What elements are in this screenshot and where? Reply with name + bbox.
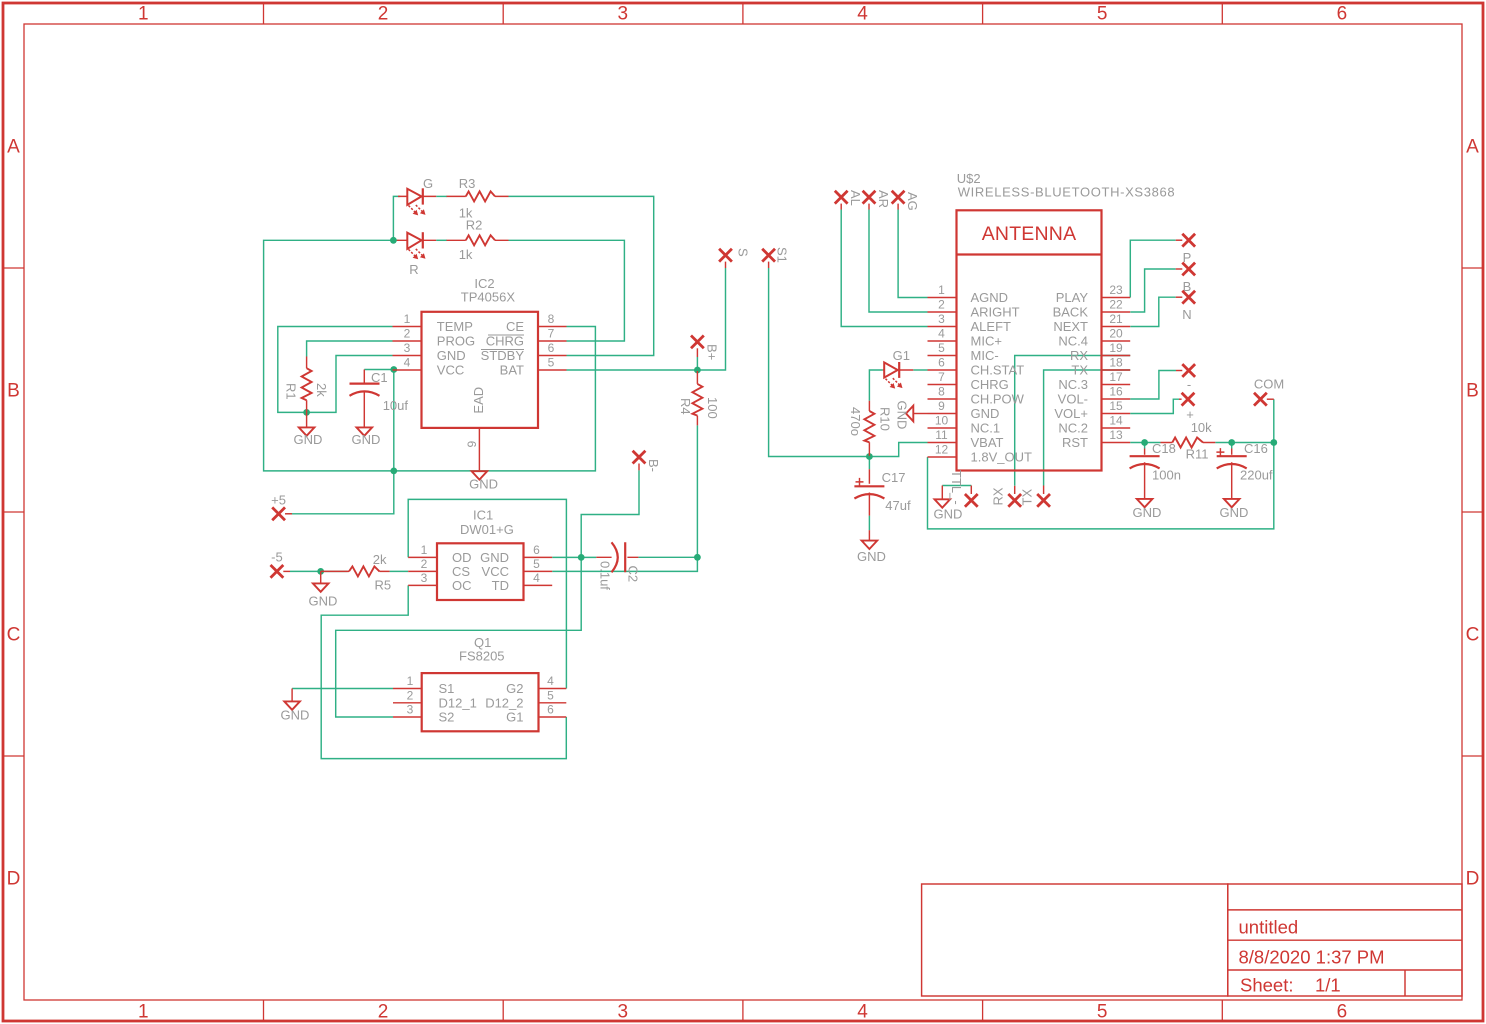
wire IC1 OC pin3 to Q1 G1 pin6 <box>321 585 566 758</box>
svg-text:7: 7 <box>548 327 555 341</box>
svg-text:TD: TD <box>492 578 509 593</box>
LED G <box>398 176 436 215</box>
svg-text:MIC+: MIC+ <box>971 334 1002 349</box>
svg-text:4: 4 <box>938 327 945 341</box>
ground at R5 / -5 <box>309 571 338 608</box>
module U$2 WIRELESS-BLUETOOTH-XS3868 <box>928 171 1176 471</box>
svg-text:19: 19 <box>1109 341 1123 355</box>
svg-text:4: 4 <box>533 571 540 585</box>
svg-text:8/8/2020 1:37 PM: 8/8/2020 1:37 PM <box>1239 947 1385 968</box>
svg-text:5: 5 <box>1097 4 1108 25</box>
svg-text:VCC: VCC <box>482 564 509 579</box>
svg-text:R4: R4 <box>678 398 693 415</box>
svg-text:C2: C2 <box>626 566 641 583</box>
svg-text:GND: GND <box>309 594 338 609</box>
capacitor C2 0.1uf <box>596 542 640 590</box>
wire IC2 PROG pin2 to R1 top <box>307 341 393 357</box>
LED R <box>397 232 437 277</box>
svg-text:8: 8 <box>548 312 555 326</box>
svg-text:R11: R11 <box>1186 447 1209 462</box>
wire R2 to IC2 CHRG pin7 <box>509 240 625 341</box>
svg-text:14: 14 <box>1109 414 1123 428</box>
wire U$2 BACK pin22 to B flag <box>1130 269 1175 312</box>
ground TTL net <box>934 486 963 522</box>
svg-text:N: N <box>1182 307 1191 322</box>
flag P <box>1176 234 1195 265</box>
flag + (VOL+) <box>1179 393 1194 422</box>
svg-text:S1: S1 <box>775 247 790 263</box>
ground C17 <box>857 530 886 564</box>
wire R3 to IC2 STDBY pin6 <box>509 196 654 355</box>
capacitor C16 220uf <box>1216 441 1273 498</box>
svg-text:D12_1: D12_1 <box>439 695 477 710</box>
svg-text:4: 4 <box>547 674 554 688</box>
svg-text:3: 3 <box>618 4 629 25</box>
svg-text:220uf: 220uf <box>1240 468 1273 483</box>
wire G1 LED cathode to U$2 CH.STAT pin6 <box>913 369 927 371</box>
svg-text:ANTENNA: ANTENNA <box>982 223 1077 245</box>
svg-text:-: - <box>1187 377 1191 392</box>
power flag -5 <box>271 550 291 578</box>
svg-text:1k: 1k <box>459 247 473 262</box>
svg-text:CS: CS <box>452 564 470 579</box>
svg-text:ARIGHT: ARIGHT <box>971 305 1020 320</box>
svg-text:NC.1: NC.1 <box>971 421 1001 436</box>
svg-text:6: 6 <box>547 703 554 717</box>
wire U$2 PLAY pin23 to P flag <box>1130 240 1175 297</box>
power flag B+ <box>691 336 720 361</box>
svg-text:COM: COM <box>1254 377 1284 392</box>
svg-text:3: 3 <box>407 703 414 717</box>
svg-text:ALEFT: ALEFT <box>971 319 1012 334</box>
svg-text:CHRG: CHRG <box>486 334 524 349</box>
svg-text:5: 5 <box>533 557 540 571</box>
svg-text:R10: R10 <box>878 407 893 431</box>
wire U$2 1.8V_OUT pin12 to COM rail <box>928 443 1274 529</box>
svg-text:0.1uf: 0.1uf <box>598 561 613 590</box>
svg-text:PLAY: PLAY <box>1056 290 1089 305</box>
resistor R4 100 <box>678 371 720 425</box>
svg-text:1: 1 <box>421 543 428 557</box>
svg-text:VOL+: VOL+ <box>1054 406 1088 421</box>
svg-text:21: 21 <box>1109 312 1123 326</box>
svg-text:GND: GND <box>934 506 963 521</box>
svg-text:7: 7 <box>938 370 945 384</box>
svg-text:6: 6 <box>548 341 555 355</box>
wire -5 to R5 <box>290 570 408 572</box>
svg-text:4: 4 <box>404 356 411 370</box>
svg-text:100n: 100n <box>1152 468 1181 483</box>
svg-text:1: 1 <box>938 283 945 297</box>
svg-text:CE: CE <box>506 319 524 334</box>
wire B- to C2 node to Q1 S2 pin3 <box>336 470 639 717</box>
svg-text:RX: RX <box>991 487 1006 505</box>
svg-text:4: 4 <box>857 1002 868 1023</box>
svg-text:FS8205: FS8205 <box>459 649 505 664</box>
svg-text:GND: GND <box>1220 505 1249 520</box>
svg-text:TX: TX <box>1019 489 1034 506</box>
svg-text:R5: R5 <box>375 578 392 593</box>
svg-text:6: 6 <box>1337 1002 1348 1023</box>
resistor R5 2k <box>321 552 391 593</box>
svg-text:22: 22 <box>1109 298 1123 312</box>
svg-text:6: 6 <box>1337 4 1348 25</box>
svg-text:A: A <box>7 137 20 158</box>
svg-text:2: 2 <box>404 327 411 341</box>
svg-text:D12_2: D12_2 <box>485 695 523 710</box>
svg-text:1: 1 <box>407 674 414 688</box>
svg-text:AGND: AGND <box>971 290 1009 305</box>
svg-text:CH.STAT: CH.STAT <box>971 363 1025 378</box>
svg-text:2: 2 <box>378 1002 389 1023</box>
svg-text:4: 4 <box>857 4 868 25</box>
wire COM flag drop <box>1273 399 1275 442</box>
svg-text:8: 8 <box>938 385 945 399</box>
svg-text:D: D <box>7 869 21 890</box>
wire U$2 RST pin13 to R11 and C18 C16 drops <box>1130 443 1274 449</box>
wire IC1 OD pin1 overpass to Q1 G2 pin4 <box>408 499 566 688</box>
svg-text:untitled: untitled <box>1239 917 1299 938</box>
wire C17 mid segment <box>868 457 870 531</box>
svg-text:NC.3: NC.3 <box>1058 377 1088 392</box>
svg-text:D: D <box>1466 869 1480 890</box>
svg-text:GND: GND <box>437 348 466 363</box>
svg-text:S: S <box>736 248 751 257</box>
wire IC1 GND pin6 to C2 left node <box>552 556 596 558</box>
svg-text:CH.POW: CH.POW <box>971 392 1025 407</box>
wire RX net from pin19 <box>1015 356 1102 486</box>
svg-text:2: 2 <box>378 4 389 25</box>
ground IC2 pin9 <box>469 471 498 492</box>
wire U$2 VOL- pin16 to - flag <box>1130 371 1176 400</box>
svg-text:GND: GND <box>1133 505 1162 520</box>
svg-text:11: 11 <box>935 428 948 442</box>
svg-text:RST: RST <box>1062 435 1088 450</box>
flag S1 <box>762 247 789 268</box>
op-amp IC1 DW01+G <box>408 508 552 601</box>
svg-text:VCC: VCC <box>437 363 464 378</box>
wire R4 bottom to C2 right node, jog to IC1 VCC <box>552 425 697 571</box>
svg-text:3: 3 <box>421 571 428 585</box>
svg-text:OC: OC <box>452 578 472 593</box>
svg-text:C18: C18 <box>1152 441 1176 456</box>
svg-text:AG: AG <box>905 192 920 211</box>
svg-text:GND: GND <box>469 477 498 492</box>
svg-text:1.8V_OUT: 1.8V_OUT <box>971 450 1032 465</box>
ground U$2 GND pin9 <box>895 401 928 430</box>
svg-text:Sheet:: Sheet: <box>1240 975 1294 996</box>
wire TX overlap on pin18 stub <box>1102 369 1131 371</box>
resistor R1 <box>284 357 330 413</box>
flag N <box>1176 291 1195 322</box>
svg-text:23: 23 <box>1109 283 1123 297</box>
svg-text:C: C <box>7 625 21 646</box>
svg-text:100: 100 <box>705 397 720 419</box>
svg-text:R3: R3 <box>459 176 476 191</box>
svg-text:RX: RX <box>1070 348 1088 363</box>
wire RX overlap on pin19 stub <box>1102 355 1131 357</box>
svg-text:MIC-: MIC- <box>971 348 999 363</box>
svg-text:B-: B- <box>646 459 661 472</box>
resistor R11 10k <box>1161 420 1216 462</box>
svg-text:IC1: IC1 <box>473 508 493 523</box>
svg-text:-5: -5 <box>271 550 283 565</box>
svg-text:S1: S1 <box>439 681 455 696</box>
flag TX <box>1019 486 1050 507</box>
svg-text:WIRELESS-BLUETOOTH-XS3868: WIRELESS-BLUETOOTH-XS3868 <box>958 185 1176 200</box>
svg-text:GND: GND <box>294 432 323 447</box>
wire U$2 NEXT pin21 to N flag <box>1130 297 1175 326</box>
svg-text:1: 1 <box>138 4 149 25</box>
svg-text:12: 12 <box>935 443 949 457</box>
wire LED R junction to GND rail to IC2 CE pin8 <box>264 240 596 471</box>
svg-text:NEXT: NEXT <box>1053 319 1088 334</box>
svg-text:5: 5 <box>1097 1002 1108 1023</box>
power flag +5 <box>271 493 292 521</box>
resistor R2 1k <box>447 218 509 262</box>
ground C16 <box>1220 499 1249 520</box>
resistor R10 470o <box>848 401 893 456</box>
ground R1 <box>294 412 323 447</box>
svg-text:10uf: 10uf <box>383 398 409 413</box>
svg-text:10k: 10k <box>1191 420 1212 435</box>
flag S <box>719 248 750 268</box>
svg-text:3: 3 <box>938 312 945 326</box>
svg-text:5: 5 <box>548 356 555 370</box>
svg-text:R2: R2 <box>466 218 483 233</box>
wire S1 flag down to VBAT node <box>769 268 928 457</box>
wire LED G to R3 <box>436 195 447 197</box>
svg-text:B: B <box>7 381 20 402</box>
svg-text:18: 18 <box>1109 356 1123 370</box>
svg-text:GND: GND <box>281 708 310 723</box>
svg-text:GND: GND <box>480 550 509 565</box>
svg-text:C: C <box>1466 625 1480 646</box>
svg-text:DW01+G: DW01+G <box>460 522 514 537</box>
svg-text:1: 1 <box>404 312 411 326</box>
svg-text:47uf: 47uf <box>885 498 911 513</box>
wire IC2 TEMP pin1 loop to R1 bottom <box>278 327 393 413</box>
svg-text:C17: C17 <box>882 470 906 485</box>
op-amp IC2 TP4056X <box>393 276 567 470</box>
svg-text:6: 6 <box>533 543 540 557</box>
flag B <box>1176 263 1195 294</box>
svg-text:GND: GND <box>352 432 381 447</box>
wire VCC node down to +5 <box>286 370 394 514</box>
svg-text:PROG: PROG <box>437 334 475 349</box>
svg-text:9: 9 <box>465 441 479 448</box>
flag COM <box>1254 377 1284 406</box>
resistor R3 1k <box>447 176 509 220</box>
node TTL X flag <box>949 470 978 507</box>
flag - (VOL-) <box>1176 364 1195 392</box>
svg-text:EAD: EAD <box>471 387 486 414</box>
svg-text:G1: G1 <box>893 348 910 363</box>
wire AG flag to AGND pin1 <box>898 210 927 298</box>
wire IC2 BAT pin5 to B+ node and S drop <box>567 268 726 370</box>
svg-text:AR: AR <box>876 190 891 208</box>
flag AG <box>892 191 920 211</box>
svg-text:2k: 2k <box>373 552 387 567</box>
svg-text:R: R <box>409 262 418 277</box>
svg-text:5: 5 <box>547 688 554 702</box>
svg-text:BACK: BACK <box>1053 305 1089 320</box>
wire Q1 S1 pin1 to ground <box>292 688 393 690</box>
wire TTL net <box>942 485 971 487</box>
svg-text:13: 13 <box>1109 428 1123 442</box>
wire LED R to R2 <box>436 239 447 241</box>
svg-text:2: 2 <box>938 298 945 312</box>
wire TX net from pin18 <box>1044 370 1102 486</box>
svg-text:2: 2 <box>421 557 428 571</box>
svg-text:STDBY: STDBY <box>481 348 525 363</box>
svg-text:B: B <box>1466 381 1479 402</box>
svg-text:17: 17 <box>1109 370 1123 384</box>
svg-text:GND: GND <box>895 401 910 430</box>
svg-text:5: 5 <box>938 341 945 355</box>
svg-text:TTL_-: TTL_- <box>949 470 964 505</box>
svg-text:C1: C1 <box>371 370 388 385</box>
svg-text:9: 9 <box>938 399 945 413</box>
wire U$2 VOL+ pin15 to + flag <box>1130 399 1179 413</box>
svg-text:1: 1 <box>138 1002 149 1023</box>
svg-text:VBAT: VBAT <box>971 435 1004 450</box>
flag RX <box>991 486 1022 507</box>
wire R1 bottom to IC2 GND pin3 <box>307 356 393 413</box>
transistor Q1 FS8205 <box>393 635 566 731</box>
flag AR <box>863 190 891 210</box>
svg-text:TX: TX <box>1071 363 1088 378</box>
svg-text:B+: B+ <box>705 344 720 360</box>
wire AL flag to ALEFT pin3 <box>841 210 927 327</box>
svg-text:TP4056X: TP4056X <box>461 290 516 305</box>
svg-text:470o: 470o <box>848 407 863 436</box>
svg-text:GND: GND <box>857 549 886 564</box>
LED G1 <box>883 348 914 389</box>
svg-text:3: 3 <box>404 341 411 355</box>
svg-text:C16: C16 <box>1244 441 1268 456</box>
ground C18 <box>1133 499 1162 520</box>
svg-text:TEMP: TEMP <box>437 319 473 334</box>
svg-text:2: 2 <box>407 688 414 702</box>
wire AR flag to ARIGHT pin2 <box>869 210 928 313</box>
svg-text:+5: +5 <box>271 493 286 508</box>
wire G1 LED anode node <box>869 370 882 401</box>
svg-text:OD: OD <box>452 550 472 565</box>
capacitor C17 47uf <box>854 469 911 515</box>
svg-text:NC.4: NC.4 <box>1058 334 1088 349</box>
svg-text:3: 3 <box>618 1002 629 1023</box>
svg-text:2k: 2k <box>314 383 329 397</box>
svg-text:G: G <box>423 176 433 191</box>
power flag B- <box>633 451 661 472</box>
svg-text:R1: R1 <box>284 383 299 400</box>
svg-text:CHRG: CHRG <box>971 377 1009 392</box>
svg-text:G1: G1 <box>506 710 523 725</box>
svg-text:NC.2: NC.2 <box>1058 421 1088 436</box>
svg-text:1/1: 1/1 <box>1315 975 1341 996</box>
svg-text:15: 15 <box>1109 399 1123 413</box>
ground at Q1 S1 <box>281 689 310 723</box>
svg-text:20: 20 <box>1109 327 1123 341</box>
flag AL <box>835 190 863 210</box>
svg-text:VOL-: VOL- <box>1058 392 1088 407</box>
svg-text:16: 16 <box>1109 385 1123 399</box>
TITLE BLOCK <box>922 884 1462 996</box>
svg-text:A: A <box>1466 137 1479 158</box>
capacitor C1 10uf <box>350 370 409 428</box>
svg-text:GND: GND <box>971 406 1000 421</box>
svg-text:S2: S2 <box>439 710 455 725</box>
svg-text:10: 10 <box>935 414 949 428</box>
svg-text:6: 6 <box>938 356 945 370</box>
svg-text:BAT: BAT <box>500 363 524 378</box>
junction dots <box>303 237 1277 575</box>
svg-text:AL: AL <box>848 190 863 206</box>
capacitor C18 100n <box>1130 441 1181 498</box>
wire LED G anode to junction <box>393 196 400 240</box>
wire IC2 VCC pin4 node to C1 <box>364 369 394 371</box>
svg-text:G2: G2 <box>506 681 523 696</box>
ground C1 <box>352 427 381 447</box>
